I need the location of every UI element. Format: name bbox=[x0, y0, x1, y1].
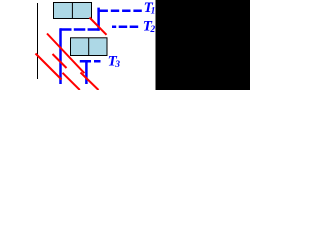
red RB2 bbox=[81, 73, 99, 91]
wire V2 bbox=[97, 8, 100, 31]
red RA bbox=[90, 18, 107, 35]
box pair 1 bbox=[54, 3, 92, 19]
wire H2 bbox=[112, 26, 139, 29]
label T2 bbox=[143, 19, 156, 35]
red RD1 bbox=[36, 54, 62, 80]
svg-text:3: 3 bbox=[114, 60, 120, 70]
red RC bbox=[53, 54, 67, 68]
red RD2 bbox=[63, 73, 80, 90]
wire H_top bbox=[60, 28, 100, 31]
label T3 bbox=[108, 54, 121, 70]
wire V1 bbox=[59, 28, 62, 84]
label T1 bbox=[144, 0, 156, 16]
transparent padding area (stored black) right of figure bbox=[156, 0, 251, 90]
svg-text:1: 1 bbox=[151, 7, 156, 17]
box pair 2 bbox=[71, 38, 108, 56]
wire H_bot bbox=[80, 60, 103, 63]
wire V3 bbox=[85, 60, 88, 84]
red RBL2 bbox=[47, 34, 84, 74]
axis bbox=[37, 3, 39, 79]
wire H1 bbox=[100, 9, 143, 12]
svg-text:2: 2 bbox=[149, 25, 155, 35]
